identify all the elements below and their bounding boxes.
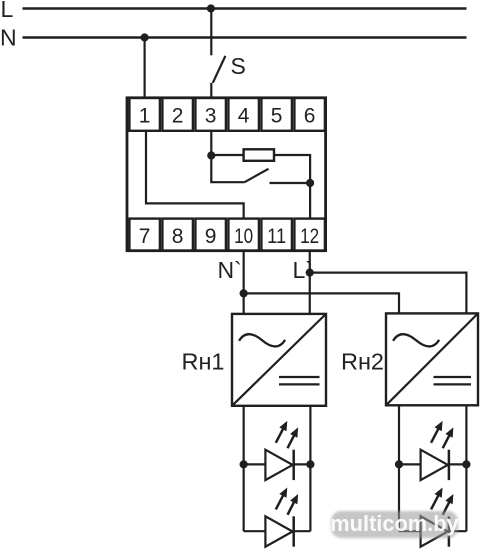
relay contact blade (245, 169, 269, 182)
label S (231, 53, 246, 79)
internal wire terminal 1 to terminal 10 (146, 131, 244, 219)
svg-text:N: N (0, 24, 17, 50)
terminal 3 (195, 98, 226, 131)
Rн2 AC symbol (393, 334, 439, 346)
terminal 9 (195, 219, 226, 251)
svg-text:S: S (231, 53, 246, 79)
svg-text:multicom.by: multicom.by (330, 511, 458, 536)
net label N (0, 24, 17, 50)
Rн2 DC symbol (434, 377, 472, 384)
LED D1 (Rн1 upper) (244, 421, 311, 480)
svg-text:6: 6 (304, 104, 316, 127)
junction on net L` (306, 269, 314, 277)
terminal 8 (162, 219, 193, 251)
wire terminal 10 down to Rn1 (net N`) (243, 251, 245, 314)
junction on N rail (141, 33, 149, 41)
Rн1 DC symbol (279, 377, 320, 384)
wire junction A to relay coil (211, 154, 243, 156)
junction on L rail (207, 4, 215, 12)
svg-text:3: 3 (205, 104, 217, 127)
terminal 6 (294, 98, 325, 131)
N rail wire (23, 36, 467, 39)
converter Rн1 box (232, 314, 326, 406)
Rн2 LED left rail wire (398, 405, 400, 531)
LED D3 (Rн2 upper) (399, 421, 466, 480)
svg-text:12: 12 (300, 225, 319, 248)
label Rн2 (341, 349, 384, 375)
wire terminal 12 down to Rn1 (net L`) (309, 251, 311, 314)
Rн1 LED right rail wire (309, 406, 311, 531)
terminal 5 (261, 98, 292, 131)
watermark multicom.by (330, 511, 458, 538)
svg-text:9: 9 (205, 225, 217, 248)
svg-text:5: 5 (271, 104, 283, 127)
relay outer box (127, 98, 326, 251)
junction Rн2 LED left (395, 460, 403, 468)
Rн1 diagonal (232, 314, 326, 406)
svg-text:N`: N` (218, 257, 242, 283)
svg-text:2: 2 (172, 104, 184, 127)
net label N` (218, 257, 242, 283)
L rail wire (23, 7, 467, 10)
relay coil (resistor) (244, 149, 274, 161)
wire junction A down to relay contact (211, 156, 244, 183)
svg-text:8: 8 (172, 225, 184, 248)
net label L (1, 0, 14, 22)
svg-text:7: 7 (139, 225, 151, 248)
label Rн1 (181, 349, 224, 375)
relay contact fixed side (270, 182, 311, 184)
terminal 11 (261, 219, 292, 251)
LED D2 (Rн1 lower) (244, 488, 311, 547)
junction Rн2 LED right (462, 460, 470, 468)
Rн2 LED right rail wire (465, 405, 467, 531)
wire L rail to switch S (210, 9, 212, 56)
terminal 7 (129, 219, 160, 251)
internal wire terminal 3 down to junction A (210, 131, 212, 156)
LED D4 (Rн2 lower) (399, 488, 466, 547)
wire junction B to terminal 12 (309, 183, 311, 219)
wire relay coil to junction B (274, 155, 310, 183)
svg-text:Rн2: Rн2 (341, 349, 384, 375)
wire net L` to Rn2 right input (310, 273, 467, 314)
svg-text:4: 4 (238, 104, 250, 127)
svg-text:1: 1 (139, 104, 151, 127)
wire net N` to Rn2 left input (244, 293, 399, 313)
terminal 10 (228, 219, 259, 251)
svg-text:11: 11 (267, 225, 286, 248)
svg-text:L: L (1, 0, 14, 22)
junction on net N` (240, 289, 248, 297)
terminal 4 (228, 98, 259, 131)
junction A (207, 151, 215, 159)
wire N rail to terminal 1 (144, 38, 146, 98)
terminal 2 (162, 98, 193, 131)
terminal 12 (294, 219, 325, 251)
Rн1 LED left rail wire (243, 406, 245, 531)
Rн2 diagonal (386, 313, 478, 405)
junction B (306, 179, 314, 187)
svg-text:10: 10 (234, 225, 253, 248)
terminal 1 (129, 98, 160, 131)
wire switch S to terminal 3 (210, 83, 212, 98)
net label L` (293, 257, 313, 283)
junction Rн1 LED right (306, 460, 314, 468)
junction Rн1 LED left (240, 460, 248, 468)
svg-text:Rн1: Rн1 (181, 349, 224, 375)
switch S blade (213, 56, 226, 83)
Rн1 AC symbol (239, 334, 285, 346)
converter Rн2 box (386, 313, 478, 405)
